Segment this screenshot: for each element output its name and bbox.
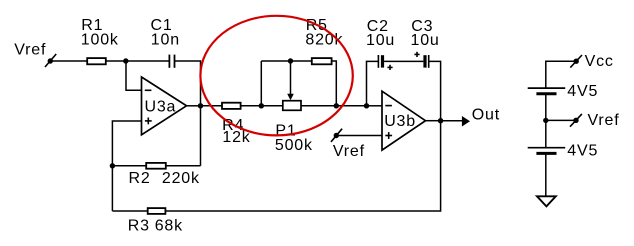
wire node F to node H <box>336 105 366 107</box>
wire node D to Out arrow <box>441 120 462 122</box>
resistor R1 100k <box>81 17 119 64</box>
svg-text:U3a: U3a <box>145 98 177 115</box>
wire R3 along bottom rail up to node D <box>165 121 440 211</box>
output terminal Out <box>462 106 500 126</box>
svg-text:4V5: 4V5 <box>567 83 598 100</box>
annotation red ellipse <box>200 16 352 136</box>
svg-text:68k: 68k <box>155 217 183 234</box>
capacitor C2 10u <box>366 18 395 70</box>
wire battery stack to Vcc corner <box>546 61 576 88</box>
node E junction <box>259 103 264 108</box>
node C junction <box>110 163 115 168</box>
wire node E to P1 <box>261 105 283 107</box>
terminal Vref (right) <box>570 112 619 129</box>
resistor R3 68k <box>128 208 183 234</box>
wiper arrowhead <box>287 94 294 101</box>
wire node J to Vref terminal (right) <box>546 119 576 121</box>
wire node A down to U3a inverting input <box>126 61 142 90</box>
svg-text:Vref: Vref <box>14 41 46 58</box>
wire wiper from node G <box>290 61 292 95</box>
node G junction (wiper tap) <box>288 58 293 63</box>
svg-text:500k: 500k <box>275 137 313 154</box>
node F junction <box>334 103 339 108</box>
svg-text:Out: Out <box>472 106 500 123</box>
terminal Vcc <box>570 53 613 70</box>
wire node J to battery B2 <box>545 120 547 147</box>
svg-text:10u: 10u <box>366 32 395 49</box>
potentiometer P1 500k <box>275 101 313 154</box>
wire B1 to node J <box>545 94 547 121</box>
resistor R2 220k <box>129 163 200 187</box>
op-amp U3b <box>382 91 426 150</box>
wire node E up to top branch <box>260 61 262 106</box>
wire node B to R4 <box>201 105 223 107</box>
node A junction <box>123 58 128 63</box>
wire node C to R2 <box>112 165 146 167</box>
node B junction <box>198 103 203 108</box>
wire Vref terminal to U3b non-inverting input <box>336 135 382 137</box>
wire P1 to node F <box>301 105 336 107</box>
svg-text:4V5: 4V5 <box>567 143 598 160</box>
svg-text:Vref: Vref <box>588 112 620 129</box>
svg-text:Vcc: Vcc <box>585 53 614 70</box>
wire C2 to C3 <box>384 60 423 62</box>
wire C3 down to node D <box>429 61 441 120</box>
op-amp U3a <box>142 77 187 135</box>
capacitor C3 10u <box>411 18 440 68</box>
wire bottom rail to R3 <box>112 210 147 212</box>
wire B2 to ground <box>545 153 547 196</box>
wire R5 down to node F <box>332 61 337 106</box>
ground <box>537 196 556 206</box>
wire top branch to R5 <box>261 60 311 62</box>
wire C1 to node B (feedback) <box>175 61 201 106</box>
wire R2 to feedback vertical <box>166 165 201 167</box>
wire Vref to R1 <box>50 60 87 62</box>
resistor R5 820k <box>305 17 343 64</box>
capacitor C1 10n <box>151 17 180 68</box>
svg-text:U3b: U3b <box>384 113 416 130</box>
battery B2 4V5 <box>528 143 598 160</box>
wire node H to U3b inverting input <box>367 105 383 107</box>
svg-text:10n: 10n <box>151 32 180 49</box>
svg-text:R3: R3 <box>128 217 150 234</box>
node J junction <box>543 118 548 123</box>
terminal Vref (U3b non-inverting input) <box>331 129 365 160</box>
svg-text:R2: R2 <box>129 170 151 187</box>
wire node C down to bottom rail <box>111 166 113 211</box>
wire U3b output to node D <box>426 120 441 122</box>
terminal Vref (left input) <box>14 41 56 67</box>
svg-text:100k: 100k <box>81 32 119 49</box>
wire node H up to C2 <box>367 61 379 105</box>
wire R4 to node E <box>241 105 262 107</box>
wire node B down to R2 (feedback) <box>200 106 202 166</box>
svg-text:220k: 220k <box>162 170 200 187</box>
node H junction <box>364 103 369 108</box>
wire node C up to U3a non-inverting input <box>112 121 141 166</box>
node D junction <box>438 118 443 123</box>
battery B1 4V5 <box>528 83 598 100</box>
wire U3a output to node B <box>187 105 201 107</box>
svg-text:10u: 10u <box>411 32 440 49</box>
resistor R4 12k <box>222 103 251 146</box>
wire R1 to C1 through node A <box>106 60 169 62</box>
svg-text:Vref: Vref <box>333 143 365 160</box>
